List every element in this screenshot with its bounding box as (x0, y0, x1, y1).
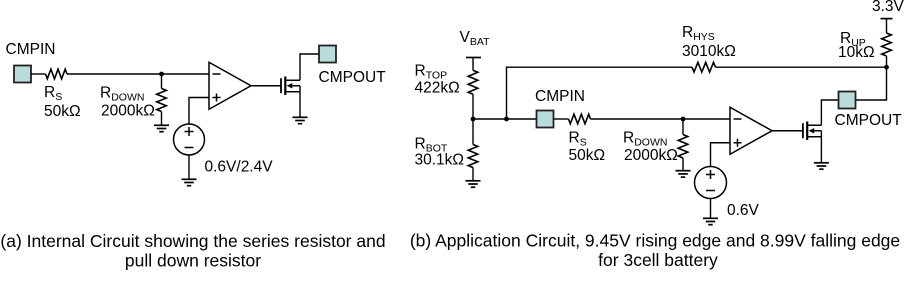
transistor Q1 (a) NMOS (281, 77, 300, 96)
wire R_HYS to pull-up node (716, 66, 887, 68)
ground below R_BOT (466, 181, 481, 187)
wire op-amp output to Q1 gate (251, 85, 281, 87)
wire V_BAT to R_TOP (472, 58, 474, 71)
svg-text:CMPOUT: CMPOUT (835, 112, 903, 129)
svg-text:(b) Application Circuit, 9.45V: (b) Application Circuit, 9.45V rising ed… (410, 231, 900, 251)
op-amp U1 (a) (209, 62, 251, 109)
svg-text:CMPIN: CMPIN (535, 88, 585, 105)
svg-text:0.6V/2.4V: 0.6V/2.4V (205, 159, 274, 176)
wire Q2 source to ground (820, 131, 822, 163)
wire R_DOWN to ground (161, 112, 163, 126)
resistor R_DOWN (a) (157, 89, 167, 112)
svg-text:CMPIN: CMPIN (6, 41, 56, 58)
wire R_TOP to node (472, 94, 474, 119)
transistor Q2 (b) NMOS (803, 122, 822, 141)
ground below V2 (b) (703, 218, 718, 224)
wire R_DOWN to ground (b) (682, 158, 684, 170)
wire node to R_BOT (472, 119, 474, 145)
wire feedback tap up to R_HYS rail (507, 67, 693, 119)
supply bar V_BAT (466, 57, 481, 59)
pad CMPIN (b) (537, 111, 554, 128)
wire Q1 drain to CMPOUT pad (300, 54, 319, 80)
wire source V1 to ground (188, 155, 190, 179)
pad CMPOUT (b) (839, 92, 856, 109)
wire Q2 drain to CMPOUT pad (b) (821, 100, 838, 125)
voltage source V2 0.6V (b) (695, 167, 727, 199)
wire Q1 source to ground (299, 86, 301, 117)
svg-text:0.6V: 0.6V (727, 202, 760, 219)
resistor R_S (a) (46, 69, 68, 79)
supply bar 3.3V (881, 18, 893, 20)
resistor R_UP (882, 33, 892, 56)
svg-text:30.1kΩ: 30.1kΩ (415, 152, 465, 169)
wire pad to R_S (31, 73, 46, 75)
wire 3.3V to R_UP (886, 19, 888, 33)
wire pad to R_S (b) (554, 118, 569, 120)
resistor R_DOWN (b) (678, 135, 688, 159)
ground below V1 (a) (182, 179, 197, 185)
junction node divider (471, 117, 476, 122)
svg-text:2000kΩ: 2000kΩ (101, 103, 155, 120)
svg-text:50kΩ: 50kΩ (569, 147, 606, 164)
resistor R_HYS (692, 62, 716, 72)
svg-text:pull down resistor: pull down resistor (125, 251, 261, 271)
wire op-amp non-inverting input to source V1 (189, 98, 210, 125)
wire node to R_DOWN (b) (682, 119, 684, 135)
svg-text:10kΩ: 10kΩ (838, 44, 875, 61)
wire node to CMPIN pad (b) (473, 118, 537, 120)
svg-text:(a) Internal Circuit showing t: (a) Internal Circuit showing the series … (0, 231, 385, 251)
svg-text:for 3cell battery: for 3cell battery (598, 250, 718, 270)
ground below R_DOWN (a) (154, 125, 169, 131)
wire op-amp output to Q2 gate (772, 130, 803, 132)
junction node (b) (681, 117, 686, 122)
resistor R_S (b) (569, 114, 591, 124)
svg-text:2000kΩ: 2000kΩ (624, 147, 678, 164)
wire R_BOT to ground (472, 168, 474, 181)
ground below Q1 (a) (293, 117, 308, 123)
op-amp U2 (b) (730, 107, 772, 154)
wire CMPOUT pad to pull-up node (856, 67, 887, 100)
pad CMPOUT (a) (319, 46, 336, 63)
svg-text:3010kΩ: 3010kΩ (682, 43, 736, 60)
junction node pull-up (884, 65, 889, 70)
resistor R_TOP (468, 70, 478, 94)
ground below Q2 (b) (814, 163, 829, 169)
junction node (a) (159, 72, 164, 77)
svg-text:422kΩ: 422kΩ (415, 80, 460, 97)
wire op-amp non-inverting input to source V2 (711, 143, 731, 167)
wire R_UP to pull-up node (886, 56, 888, 67)
junction node feedback tap (504, 117, 509, 122)
wire source V2 to ground (710, 199, 712, 219)
svg-text:CMPOUT: CMPOUT (319, 69, 387, 86)
wire node to R_DOWN (161, 74, 163, 89)
voltage source V1 0.6V/2.4V (a) (174, 124, 205, 155)
svg-text:3.3V: 3.3V (872, 0, 905, 15)
resistor R_BOT (468, 145, 478, 168)
wire R_S to op-amp inverting input (b) (591, 118, 731, 120)
ground below R_DOWN (b) (676, 171, 691, 177)
pad CMPIN (14, 66, 31, 83)
wire R_S to op-amp inverting input (67, 73, 210, 75)
svg-text:50kΩ: 50kΩ (44, 103, 81, 120)
